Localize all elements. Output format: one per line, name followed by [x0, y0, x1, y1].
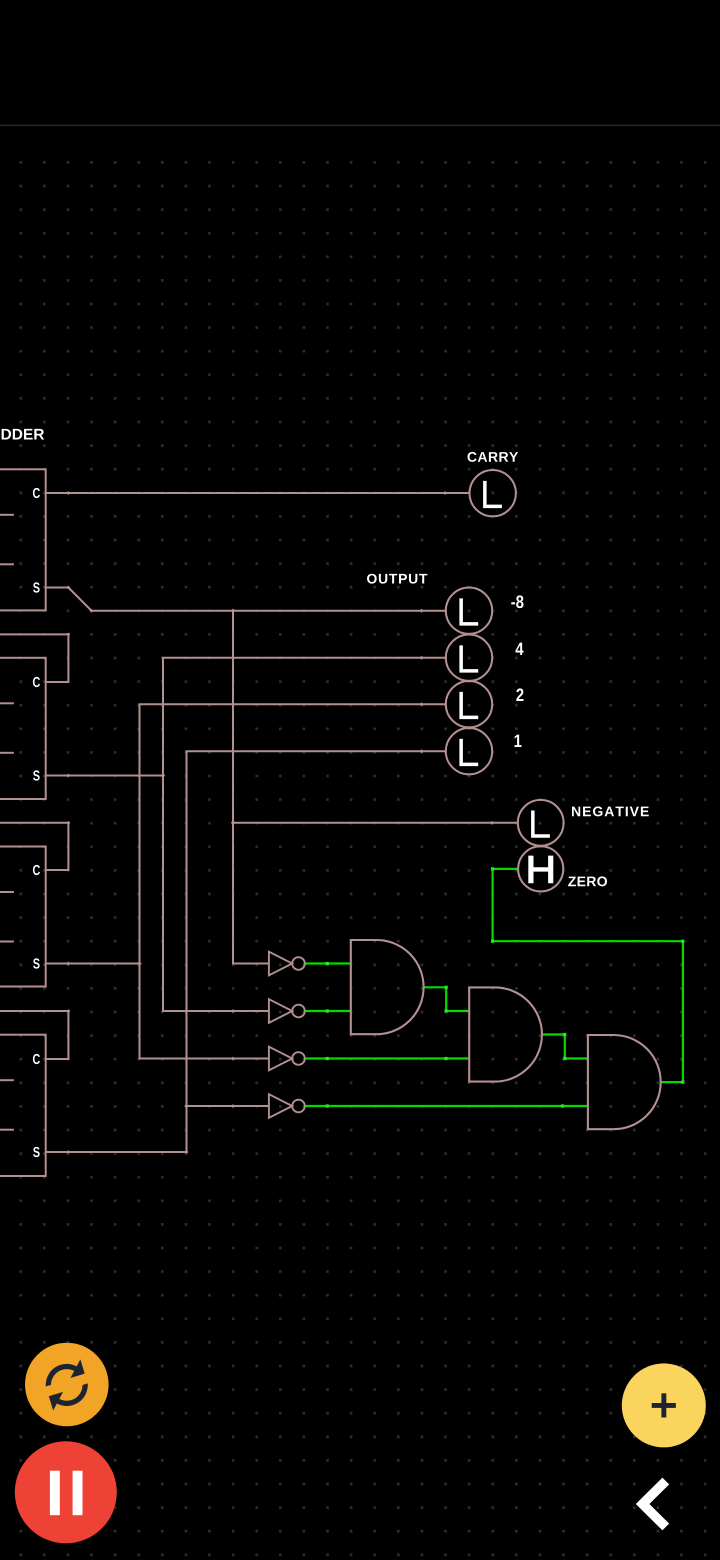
pin label U2.C: [33, 677, 40, 687]
pin label U2.S: [33, 770, 40, 780]
vertex ZERO path corner bottom right: [681, 1081, 684, 1084]
vertex S3 pin: [66, 962, 70, 966]
label ADDER: [0, 429, 44, 440]
AND gate G5: [351, 940, 424, 1034]
U1 input pin stub A: [0, 514, 14, 516]
junction S1/-8: [231, 609, 235, 613]
vertex NOT3 out: [326, 1057, 329, 1060]
wire AND1 out elbow to AND2: [424, 987, 470, 1011]
pin label U3.S: [33, 958, 40, 968]
U3 input pin stub A: [0, 891, 14, 893]
adder U2 box: [0, 658, 46, 799]
vertex C3 elbow: [66, 821, 70, 825]
top divider line: [0, 125, 720, 127]
wire NOT4 input branch: [187, 1105, 269, 1107]
vertex S4 corner: [185, 1150, 189, 1154]
adder U3 box: [0, 847, 46, 987]
wire vertical net S2 column x163 to LED4 and NOT2: [163, 658, 446, 1011]
wire NOT1 out to AND1: [305, 962, 351, 964]
wire AND3 out to ZERO led: [493, 869, 683, 1082]
vertex C1 pin: [66, 491, 70, 495]
U3 input pin stub B: [0, 941, 14, 943]
vertex AND2 elbow bottom: [563, 1057, 566, 1060]
wire vertical net S3 column x139.5 to LED2 and NOT3: [140, 704, 446, 1058]
vertex ZERO path corner top right: [681, 940, 684, 943]
wire vertex diamonds: [66, 491, 493, 1154]
LED 4: [446, 635, 492, 681]
junction NOT4 branch: [184, 1104, 188, 1108]
label OUTPUT: [367, 574, 427, 584]
junction S3 column: [137, 961, 141, 965]
vertex NOT4 row before AND3: [561, 1104, 564, 1107]
U2 input pin stub A: [0, 702, 14, 704]
U4 input pin stub A: [0, 1079, 14, 1081]
wire U4.S to column x186.5: [46, 1151, 187, 1153]
wires (inactive, low state): [0, 493, 518, 1152]
vertex before LED -8: [420, 609, 424, 613]
vertex S1 pin: [66, 586, 70, 590]
pin label U4.S: [33, 1147, 40, 1157]
label -8: [511, 595, 523, 608]
label 4: [515, 643, 523, 655]
label 2: [516, 688, 523, 701]
NOT gate G2: [269, 999, 305, 1023]
vertex S2 pin: [66, 774, 70, 778]
vertex before LED 4: [420, 656, 424, 660]
label NEGATIVE: [572, 806, 649, 816]
wire NEGATIVE branch: [233, 822, 518, 824]
wire NOT4 out to AND3: [305, 1105, 588, 1107]
wire U1.S to node, diagonal to -8 row: [46, 588, 446, 611]
NOT gate G1: [269, 952, 305, 976]
vertex AND1 elbow top: [445, 986, 448, 989]
wire U2.C carry to offscreen: [0, 634, 68, 682]
U4 input pin stub B: [0, 1129, 14, 1131]
green vertex squares: [326, 867, 685, 1107]
vertex row2 x233: [231, 1009, 235, 1013]
vertex before LED 1: [420, 749, 424, 753]
wire vertical net S4 column x186.5 to LED1: [187, 751, 446, 1152]
pin label U3.C: [33, 865, 40, 875]
label CARRY: [468, 452, 519, 462]
vertex before LED 2: [420, 702, 424, 706]
vertex before NEGATIVE led: [490, 821, 494, 825]
LED -8: [446, 588, 492, 634]
label 1: [515, 735, 522, 747]
vertex AND1 elbow bottom: [445, 1009, 448, 1012]
wire AND2 out elbow to AND3: [542, 1035, 588, 1059]
wire NOT3 out to AND2: [305, 1057, 469, 1059]
pin label U1.S: [33, 582, 40, 592]
pin label U4.C: [33, 1054, 40, 1064]
pin label U1.C: [33, 488, 40, 498]
LED CARRY: [470, 470, 516, 516]
label ZERO: [568, 876, 607, 886]
AND gate G6: [469, 987, 542, 1081]
vertex S4 pin: [66, 1150, 70, 1154]
FAB reset button: [25, 1343, 109, 1427]
vertex row4 x233: [231, 1104, 235, 1108]
vertex before CARRY: [443, 491, 447, 495]
AND gate G7: [588, 1035, 661, 1129]
LED 1: [446, 728, 492, 774]
LED NEGATIVE: [518, 800, 564, 846]
NOT gate G4: [269, 1094, 305, 1118]
vertex NOT2 out: [326, 1009, 329, 1012]
adder U1 box: [0, 469, 46, 610]
green active wires: [305, 869, 683, 1106]
vertex NOT3 row before AND2: [444, 1057, 447, 1060]
vertex NOT4 out: [326, 1104, 329, 1107]
NOT gate G3: [269, 1047, 305, 1071]
wire U3.C carry to offscreen: [0, 823, 68, 870]
wire vertical net S1 column x233: [233, 611, 269, 964]
vertex AND2 elbow top: [563, 1033, 566, 1036]
vertex ZERO path corner at led: [491, 867, 494, 870]
LED 2: [446, 681, 492, 727]
wire U4.C carry to offscreen: [0, 1011, 68, 1059]
back chevron: [643, 1481, 666, 1527]
wire U2.S to column x163: [46, 775, 163, 777]
vertex row3 x233: [231, 1057, 235, 1061]
vertex ZERO path corner mid left: [491, 940, 494, 943]
vertex C2 elbow: [66, 632, 70, 636]
wire U3.S to column x139.5: [46, 963, 140, 965]
LED ZERO (high): [518, 846, 563, 891]
FAB add button: [622, 1363, 706, 1447]
FAB pause button: [15, 1441, 117, 1543]
vertex NOT1 out: [326, 962, 329, 965]
junction S2 column: [161, 773, 165, 777]
vertex diagonal corner: [90, 609, 94, 613]
adder U4 box: [0, 1035, 46, 1176]
junction NEGATIVE branch: [231, 821, 235, 825]
wire U1.C to CARRY led: [46, 492, 470, 494]
U1 input pin stub B: [0, 563, 14, 565]
wire NOT2 out to AND1: [305, 1010, 351, 1012]
vertex C4 elbow: [66, 1009, 70, 1013]
U2 input pin stub B: [0, 752, 14, 754]
